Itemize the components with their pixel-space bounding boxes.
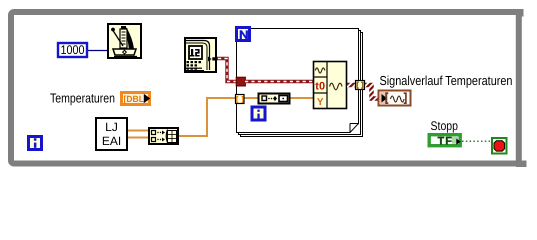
svg-text:1000: 1000 xyxy=(61,43,85,57)
svg-text:Stopp: Stopp xyxy=(431,119,459,133)
svg-text:[DBL: [DBL xyxy=(124,94,145,104)
svg-text:Temperaturen: Temperaturen xyxy=(50,91,115,106)
svg-text:EAI: EAI xyxy=(102,134,121,148)
svg-text:Y: Y xyxy=(317,97,324,108)
svg-text:LJ: LJ xyxy=(105,120,118,134)
svg-text:t0: t0 xyxy=(315,81,325,93)
svg-text:Signalverlauf Temperaturen: Signalverlauf Temperaturen xyxy=(380,73,513,88)
svg-text:TF: TF xyxy=(438,135,453,147)
